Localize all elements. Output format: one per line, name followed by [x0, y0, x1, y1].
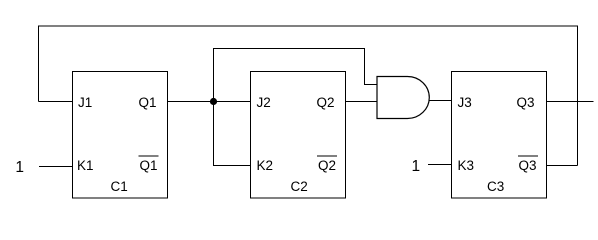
wire Q3 output	[547, 101, 594, 103]
svg-text:J1: J1	[78, 95, 92, 110]
svg-text:C1: C1	[111, 179, 128, 194]
wire K1 input	[39, 166, 73, 168]
svg-text:K3: K3	[458, 158, 475, 173]
wire feedback top (Q3bar to J1)	[39, 26, 578, 166]
svg-text:C2: C2	[291, 179, 308, 194]
svg-text:J3: J3	[458, 95, 472, 110]
wire Q2 to gate input B	[346, 101, 378, 103]
label Q1bar	[139, 156, 159, 173]
svg-text:C3: C3	[487, 179, 504, 194]
wire junction down to K2	[214, 102, 251, 166]
svg-text:Q3: Q3	[517, 95, 535, 110]
junction node Q1	[210, 98, 217, 105]
wire Q3bar to feedback riser	[547, 165, 578, 167]
flip-flop C1	[73, 72, 168, 199]
svg-text:1: 1	[15, 159, 24, 176]
wire J1 input	[39, 101, 73, 103]
svg-text:Q2: Q2	[318, 158, 336, 173]
svg-text:Q3: Q3	[519, 158, 537, 173]
wire K3 input	[428, 164, 452, 166]
flip-flop C3	[452, 72, 547, 199]
svg-text:K1: K1	[77, 158, 94, 173]
flip-flop C2	[251, 72, 346, 199]
svg-text:Q1: Q1	[139, 95, 157, 110]
svg-text:Q1: Q1	[140, 158, 158, 173]
wire junction up to gate input A	[214, 49, 378, 102]
svg-text:Q2: Q2	[317, 95, 335, 110]
label Q3bar	[518, 156, 538, 173]
wire Q1 to J2	[167, 101, 251, 103]
svg-text:K2: K2	[257, 158, 274, 173]
AND gate U1	[377, 77, 429, 119]
svg-text:J2: J2	[257, 95, 271, 110]
svg-text:1: 1	[412, 158, 421, 175]
wire gate output to J3	[430, 100, 452, 102]
label Q2bar	[317, 156, 337, 173]
